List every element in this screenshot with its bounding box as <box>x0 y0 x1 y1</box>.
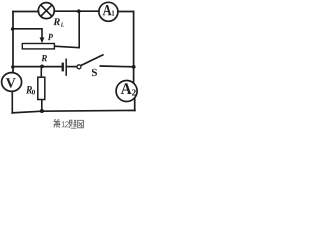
wire middle left segment <box>13 66 62 68</box>
switch S pivot <box>77 65 81 69</box>
label V <box>6 78 16 87</box>
wire wiper tap <box>13 29 42 39</box>
node D junction dot (R0 top) <box>40 65 44 69</box>
wire right rail upper <box>133 12 135 84</box>
label A1 - A <box>103 5 112 15</box>
caption hanzi 题 <box>69 120 76 128</box>
wire A1 to top-right corner <box>118 11 134 13</box>
caption digit 2 <box>65 121 69 127</box>
switch S lever <box>81 55 104 66</box>
node E junction dot (right rail / middle wire) <box>132 65 136 69</box>
wire top-left to lamp <box>13 11 39 13</box>
label R <box>41 55 47 61</box>
label RL - L subscript <box>61 23 64 27</box>
label RL - R <box>53 18 60 25</box>
label A1 - 1 subscript <box>112 10 114 15</box>
wire left rail <box>12 12 14 73</box>
wire lamp to node B <box>54 10 99 12</box>
label R0 - R <box>26 86 32 93</box>
wire switch contact to right rail <box>100 65 133 68</box>
caption digit 1 <box>62 121 66 127</box>
wire voltmeter bottom lead <box>11 91 13 113</box>
wiper arrow head P <box>40 37 45 43</box>
battery negative plate (short thick) <box>62 63 64 72</box>
potentiometer R body <box>22 44 54 49</box>
caption hanzi 第 <box>54 120 61 128</box>
wire battery to switch pivot <box>67 66 77 68</box>
ammeter A1 circle <box>99 2 118 21</box>
wire R0 bottom lead <box>41 100 43 112</box>
wire R0 top lead <box>40 66 42 77</box>
wire bottom <box>12 110 135 113</box>
lamp RL (circle with X) <box>38 3 54 19</box>
ammeter A2 circle <box>116 81 137 102</box>
node C junction dot (left rail / middle wire) <box>11 65 14 68</box>
label A2 - A <box>121 83 132 94</box>
battery positive plate (long thin) <box>65 59 67 76</box>
node A junction dot (wiper tap on left rail) <box>11 27 14 30</box>
node F junction dot (R0 bottom) <box>40 109 44 113</box>
wire pot right lead up to node B <box>54 12 79 48</box>
wire right rail lower <box>134 99 136 111</box>
caption hanzi 图 <box>78 120 84 128</box>
label P <box>48 34 53 40</box>
label A2 - 2 subscript <box>132 89 136 95</box>
voltmeter V circle <box>2 73 22 92</box>
label R0 - 0 subscript <box>32 90 35 95</box>
label S <box>92 69 97 76</box>
resistor R0 body <box>38 77 45 99</box>
node B junction dot <box>77 9 81 13</box>
